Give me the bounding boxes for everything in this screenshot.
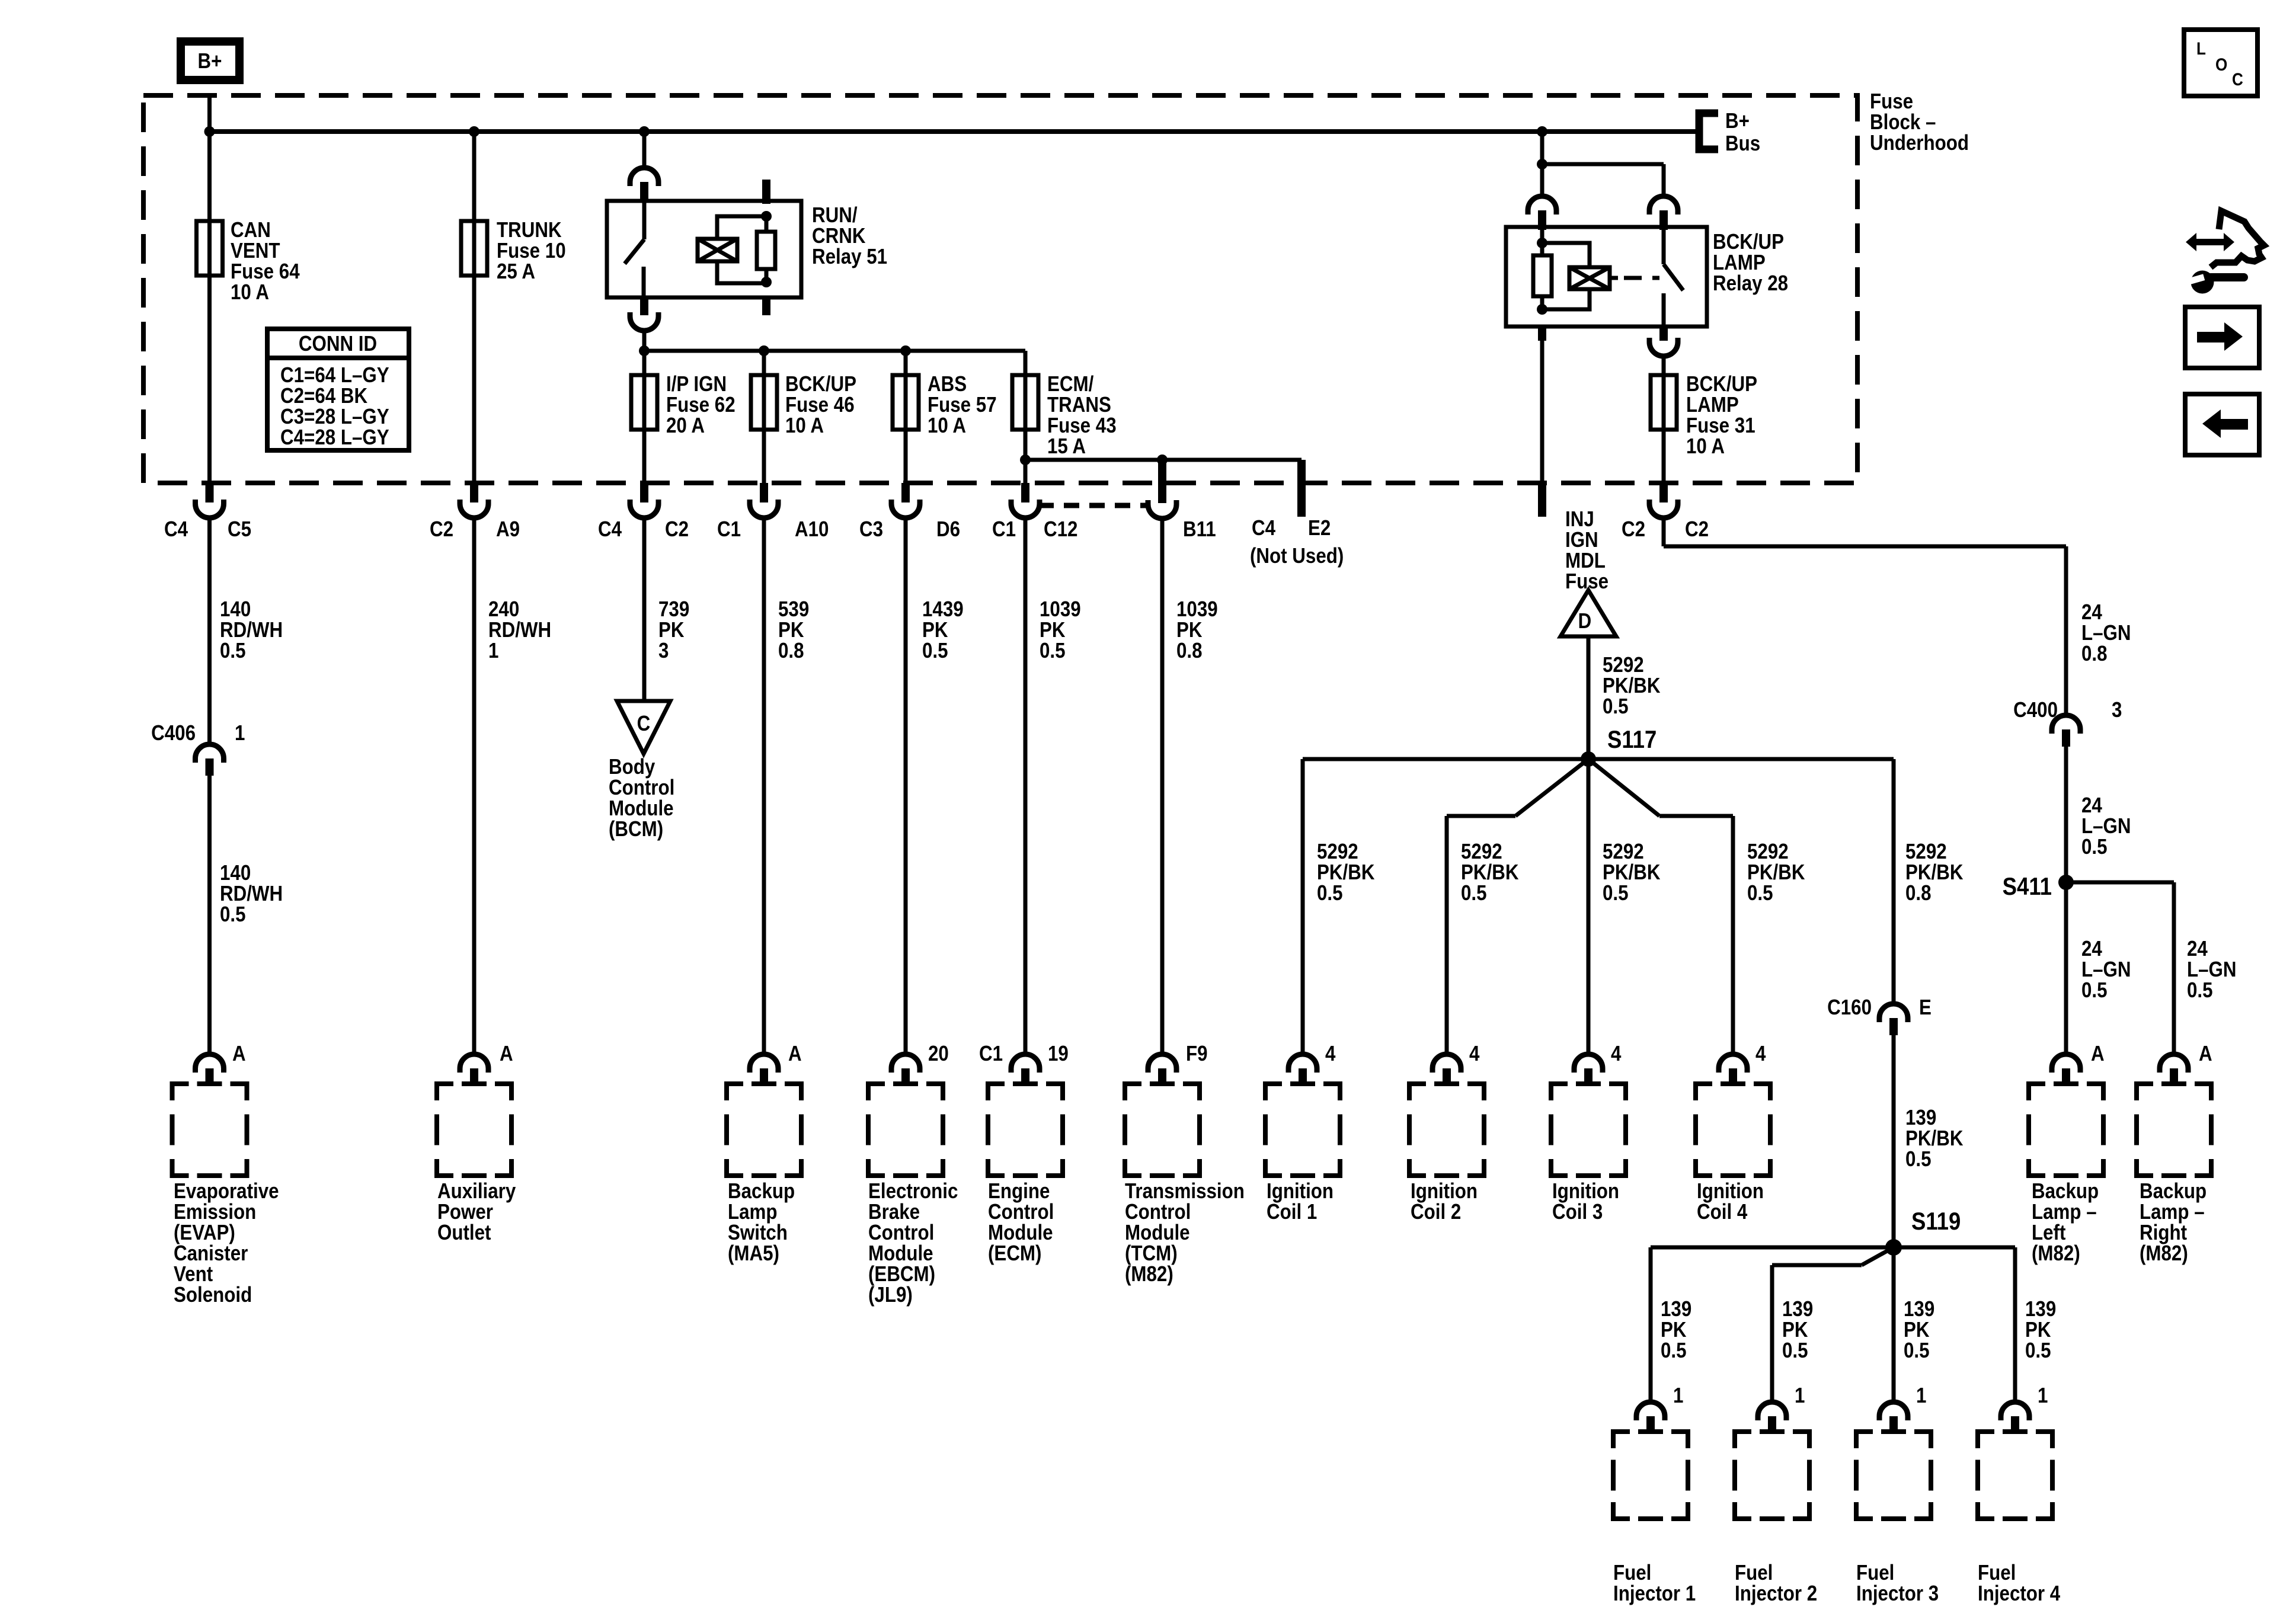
label fuse 46 (785, 372, 856, 438)
svg-text:O: O (2215, 55, 2227, 74)
wire label 139 PK injector 1 (1661, 1297, 1691, 1363)
triangle D from INJ IGN MDL fuse (1560, 590, 1616, 636)
svg-text:Outlet: Outlet (437, 1221, 491, 1245)
LOC reference box (2184, 30, 2257, 96)
connector relay28 coil pin (1528, 196, 1556, 230)
svg-text:0.5: 0.5 (1603, 694, 1629, 719)
wire fuse 10 to connector C2/A9 (472, 276, 477, 483)
wire 1439 PK (906, 518, 964, 1053)
wire to fuse 62 (642, 351, 647, 375)
svg-text:Coil 1: Coil 1 (1267, 1200, 1317, 1224)
svg-text:C5: C5 (228, 517, 251, 542)
label EBCM (868, 1179, 958, 1307)
label fuse 10 (497, 218, 566, 284)
relay 51 coil (698, 216, 766, 283)
connector 4 ignition coil 4 (1719, 1042, 1766, 1083)
svg-text:4: 4 (1469, 1042, 1480, 1066)
svg-text:3: 3 (2112, 698, 2122, 722)
label ignition coil 1 (1267, 1179, 1334, 1224)
label INJ IGN MDL fuse (1565, 507, 1609, 594)
svg-text:Underhood: Underhood (1870, 131, 1969, 155)
label fuel injector 2 (1735, 1561, 1817, 1606)
svg-text:C2: C2 (665, 517, 689, 542)
connector A AUX (460, 1042, 513, 1083)
svg-text:Bus: Bus (1725, 132, 1760, 156)
wire 5292 PK/BK 0.8 to C160 (1894, 759, 1964, 1004)
relay 51 coil resistor (757, 211, 775, 287)
svg-text:Coil 2: Coil 2 (1411, 1200, 1461, 1224)
label fuel injector 3 (1856, 1561, 1939, 1606)
terminal E2 not used (1250, 460, 1344, 568)
connector 1 fuel injector 3 (1879, 1384, 1926, 1430)
wire fuse 46 to connector C1/A10 (762, 430, 766, 483)
svg-text:(Not Used): (Not Used) (1250, 544, 1344, 568)
svg-text:4: 4 (1611, 1042, 1622, 1066)
go-to next arrow box (2185, 307, 2259, 368)
svg-text:0.5: 0.5 (1040, 639, 1066, 663)
label backup lamp switch (728, 1179, 795, 1266)
svg-text:CONN ID: CONN ID (299, 332, 377, 356)
svg-text:19: 19 (1048, 1042, 1069, 1066)
connector A backup lamp switch (750, 1042, 802, 1083)
power feed B+ symbol box (177, 37, 244, 84)
svg-text:C4: C4 (1252, 516, 1275, 540)
svg-text:C2: C2 (1622, 517, 1645, 542)
svg-text:Solenoid: Solenoid (174, 1283, 252, 1307)
wire S119 to injector 3 (1892, 1247, 1896, 1401)
svg-text:Injector 3: Injector 3 (1856, 1582, 1939, 1606)
wire label 139 PK injector 3 (1904, 1297, 1934, 1363)
ignition coil 2 box (1409, 1084, 1484, 1176)
svg-text:D: D (1578, 609, 1592, 633)
node bus-RELAY51 (639, 126, 650, 137)
node bus2-fuse46 (759, 345, 769, 356)
wire label 139 PK injector 2 (1782, 1297, 1813, 1363)
svg-text:C1: C1 (992, 517, 1016, 542)
fuse block dashed border (143, 95, 1857, 483)
svg-text:0.5: 0.5 (1904, 1339, 1930, 1363)
svg-text:10 A: 10 A (928, 414, 966, 438)
fuse block label Fuse Block - Underhood (1870, 89, 1969, 155)
connector C4/C2 (598, 483, 689, 542)
B+ Bus terminal bracket (1699, 109, 1760, 156)
svg-text:0.5: 0.5 (220, 902, 246, 927)
label fuel injector 4 (1978, 1561, 2060, 1606)
branch wire to relay28 switch (1542, 164, 1664, 196)
wire label 24 L-GN 0.8 (2081, 600, 2131, 666)
relay 28 switch output (1649, 327, 1678, 375)
connector relay51 switch pin (630, 168, 658, 202)
svg-text:1: 1 (1916, 1384, 1926, 1408)
fuse F10 TRUNK (461, 221, 487, 276)
svg-text:0.5: 0.5 (2025, 1339, 2051, 1363)
relay 28 coil resistor (1533, 227, 1552, 315)
svg-text:Injector 4: Injector 4 (1978, 1582, 2060, 1606)
wire 140 RD/WH upper (210, 518, 283, 744)
wire 1039 PK C12 (1025, 518, 1081, 1053)
node bus-TRUNK (469, 126, 479, 137)
svg-text:0.5: 0.5 (2081, 978, 2108, 1003)
relay 28 box (1506, 227, 1707, 327)
wire S117 to coil3 (1588, 759, 1661, 1053)
wire S119 to injector 2 (1772, 1247, 1894, 1401)
fuse F46 BCK/UP (751, 375, 777, 430)
label fuse 57 (928, 372, 997, 438)
relay 28 switch (1664, 227, 1683, 327)
svg-text:A: A (2199, 1042, 2212, 1066)
relay 28 coil output (1538, 327, 1546, 483)
svg-text:0.8: 0.8 (2081, 642, 2108, 666)
fuse F64 CAN VENT (197, 221, 223, 276)
fuel injector 2 box (1735, 1432, 1809, 1519)
label ignition coil 3 (1552, 1179, 1619, 1224)
svg-text:10 A: 10 A (785, 414, 824, 438)
svg-text:B11: B11 (1183, 517, 1216, 542)
node bus2-fuse62 (639, 345, 650, 356)
relay 28 actuator link (1624, 276, 1659, 280)
svg-text:Relay 28: Relay 28 (1713, 271, 1788, 296)
backup lamp left box (2029, 1084, 2103, 1176)
label fuse 64 (231, 218, 300, 305)
svg-text:0.8: 0.8 (1905, 881, 1932, 905)
connector C1/C12 (992, 483, 1077, 542)
svg-text:Coil 4: Coil 4 (1697, 1200, 1747, 1224)
svg-text:(JL9): (JL9) (868, 1283, 913, 1307)
node bus2-fuse57 (900, 345, 911, 356)
CONN ID table (267, 329, 409, 450)
svg-text:E: E (1919, 996, 1932, 1020)
svg-text:4: 4 (1325, 1042, 1336, 1066)
ignition coil 1 box (1265, 1084, 1340, 1176)
svg-text:(M82): (M82) (2032, 1241, 2080, 1266)
connector B11 (1148, 460, 1216, 542)
wire S411 to left backup lamp (2066, 882, 2131, 1053)
svg-text:C400: C400 (2013, 698, 2058, 722)
svg-text:20 A: 20 A (666, 414, 705, 438)
svg-text:0.5: 0.5 (1905, 1147, 1932, 1172)
relay 51 box (607, 201, 801, 297)
label BCM (609, 755, 674, 841)
svg-text:C160: C160 (1827, 996, 1872, 1020)
connector C406 pin 1 (151, 721, 245, 776)
svg-text:C4: C4 (164, 517, 188, 542)
svg-text:3: 3 (658, 639, 669, 663)
svg-text:0.8: 0.8 (778, 639, 804, 663)
wire fuse 31 to connector C2/C2 (1662, 430, 1666, 483)
S117 bus wire (1303, 757, 1894, 761)
fuse feed bus below relay 51 (644, 349, 1025, 353)
svg-text:(MA5): (MA5) (728, 1241, 779, 1266)
connector C400 pin 3 (2013, 698, 2122, 747)
label ECM (988, 1179, 1054, 1266)
fuse F31 BCK/UP LAMP (1651, 375, 1677, 430)
svg-text:C1: C1 (979, 1042, 1003, 1066)
svg-text:C4: C4 (598, 517, 622, 542)
wire bus to relay 28 (1540, 132, 1544, 196)
wire S119 to injector 4 (1894, 1247, 2015, 1401)
connector frame dashes C12-B11 (1038, 503, 1149, 508)
svg-text:Coil 3: Coil 3 (1552, 1200, 1603, 1224)
EVAP canister vent solenoid box (172, 1084, 247, 1176)
svg-text:C2: C2 (430, 517, 453, 542)
connector C4/C5 (164, 483, 251, 542)
splice S411 (2003, 873, 2074, 901)
svg-text:S117: S117 (1607, 726, 1657, 754)
svg-text:C1: C1 (717, 517, 741, 542)
relay 51 switch output (630, 297, 658, 351)
svg-text:0.5: 0.5 (922, 639, 948, 663)
wire fuse 64 to connector C4/C5 (207, 276, 212, 483)
EBCM box (868, 1084, 943, 1176)
svg-text:C4=28 L–GY: C4=28 L–GY (280, 425, 389, 450)
relay 28 coil (1542, 243, 1618, 309)
svg-text:1: 1 (488, 639, 498, 663)
wire to fuse 57 (904, 351, 908, 375)
svg-text:0.5: 0.5 (1603, 881, 1629, 905)
connector A backup lamp left (2052, 1042, 2105, 1083)
svg-text:20: 20 (928, 1042, 949, 1066)
node branch-B11 (1157, 454, 1168, 465)
fuse F57 ABS (893, 375, 919, 430)
label ignition coil 2 (1411, 1179, 1478, 1224)
svg-text:0.5: 0.5 (2081, 835, 2108, 859)
wire to fuse 46 (762, 351, 766, 375)
svg-text:A: A (500, 1042, 513, 1066)
label fuse 62 (666, 372, 736, 438)
svg-text:(M82): (M82) (2140, 1241, 2188, 1266)
fuel injector 4 box (1978, 1432, 2052, 1519)
svg-text:0.5: 0.5 (1461, 881, 1487, 905)
ECM box (988, 1084, 1063, 1176)
wire fuse 57 to connector C3/D6 (904, 430, 908, 483)
came-from arrow box (2185, 394, 2259, 455)
wire S117 to coil2 (1447, 759, 1588, 1053)
diagnostic icon vehicle with wrench (2186, 211, 2264, 294)
triangle C to BCM (617, 701, 670, 754)
connector C2/A9 (430, 483, 520, 542)
ignition coil 4 box (1696, 1084, 1770, 1176)
wire 739 PK (644, 518, 689, 701)
svg-text:0.5: 0.5 (2187, 978, 2213, 1003)
svg-text:1: 1 (235, 721, 245, 745)
connector C1/A10 (717, 483, 829, 542)
label backup lamp left (2032, 1179, 2099, 1266)
fuse F43 ECM/TRANS (1012, 375, 1038, 430)
connector C3/D6 (859, 483, 960, 542)
connector 1 fuel injector 4 (2001, 1384, 2048, 1430)
svg-text:A: A (232, 1042, 246, 1066)
node relay28 branch (1537, 159, 1547, 169)
wire 5292 PK/BK to S117 (1588, 636, 1661, 759)
connector relay28 switch pin (1649, 196, 1678, 230)
svg-text:A: A (788, 1042, 802, 1066)
svg-text:C2: C2 (1685, 517, 1709, 542)
wire 1039 PK B11 (1162, 518, 1218, 1053)
node fuse43-branch (1020, 454, 1031, 465)
connector 20 EBCM (891, 1042, 949, 1083)
svg-text:Injector 1: Injector 1 (1613, 1582, 1696, 1606)
fuel injector 3 box (1856, 1432, 1931, 1519)
svg-text:10 A: 10 A (231, 280, 269, 305)
connector 4 ignition coil 2 (1432, 1042, 1480, 1083)
svg-text:(BCM): (BCM) (609, 817, 663, 841)
label relay 51 (812, 203, 887, 269)
label backup lamp right (2140, 1179, 2207, 1266)
connector A EVAP (196, 1042, 246, 1083)
branch wire to B11 and E2 (1025, 458, 1302, 462)
svg-text:F9: F9 (1186, 1042, 1208, 1066)
wire 240 RD/WH (474, 518, 551, 1053)
wire label 139 PK injector 4 (2025, 1297, 2056, 1363)
svg-text:0.5: 0.5 (1317, 881, 1343, 905)
node bus-RELAY28 (1537, 126, 1547, 137)
wire bus to relay 51 switch (642, 132, 647, 168)
svg-text:0.5: 0.5 (1661, 1339, 1687, 1363)
svg-text:Injector 2: Injector 2 (1735, 1582, 1817, 1606)
svg-text:25 A: 25 A (497, 260, 535, 284)
label relay 28 (1713, 230, 1788, 296)
svg-text:S411: S411 (2003, 873, 2052, 901)
auxiliary power outlet box (437, 1084, 511, 1176)
svg-text:A10: A10 (795, 517, 829, 542)
svg-text:C3: C3 (859, 517, 883, 542)
wire S117 to coil4 (1588, 759, 1805, 1053)
svg-text:0.5: 0.5 (1782, 1339, 1808, 1363)
backup lamp switch box (727, 1084, 801, 1176)
svg-text:C: C (637, 712, 651, 736)
relay 51 coil output pin (762, 297, 770, 315)
TCM box (1125, 1084, 1200, 1176)
svg-text:C12: C12 (1044, 517, 1077, 542)
label fuel injector 1 (1613, 1561, 1696, 1606)
connector F9 TCM (1148, 1042, 1208, 1083)
fuel injector 1 box (1613, 1432, 1688, 1519)
svg-text:0.5: 0.5 (1747, 881, 1773, 905)
wire B+ to CAN VENT fuse (207, 95, 212, 221)
connector C1 19 ECM (979, 1042, 1069, 1083)
backup lamp right box (2137, 1084, 2211, 1176)
wire bus to TRUNK fuse (472, 132, 477, 221)
connector 4 ignition coil 1 (1288, 1042, 1336, 1083)
node bus-CANVENT (204, 126, 215, 137)
wire 139 PK/BK to S119 (1894, 1035, 1964, 1247)
svg-text:0.5: 0.5 (220, 639, 246, 663)
svg-text:15 A: 15 A (1047, 434, 1086, 459)
svg-text:B+: B+ (1725, 109, 1750, 133)
label ignition coil 4 (1697, 1179, 1764, 1224)
label EVAP (174, 1179, 279, 1307)
connector 1 fuel injector 2 (1758, 1384, 1805, 1430)
splice S117 (1581, 726, 1657, 767)
wire S411 to right backup lamp (2066, 882, 2237, 1053)
svg-text:(M82): (M82) (1125, 1262, 1173, 1286)
svg-text:1: 1 (2038, 1384, 2048, 1408)
label fuse 43 (1047, 372, 1117, 459)
B+ bus wire (210, 129, 1698, 134)
connector 1 fuel injector 1 (1636, 1384, 1683, 1430)
svg-text:S119: S119 (1911, 1208, 1961, 1235)
label AUX outlet (437, 1179, 516, 1245)
svg-text:A: A (2091, 1042, 2105, 1066)
svg-text:Relay 51: Relay 51 (812, 245, 887, 269)
ignition coil 3 box (1551, 1084, 1626, 1176)
wire fuse 62 to connector C4/C2 (642, 430, 647, 483)
svg-text:10 A: 10 A (1686, 434, 1725, 459)
svg-text:C: C (2232, 69, 2243, 89)
wire C400 to S411 (2066, 747, 2131, 882)
terminal INJ IGN MDL fuse (1538, 483, 1546, 517)
wire to fuse 43 (1024, 351, 1028, 375)
svg-text:C406: C406 (151, 721, 196, 745)
connector C160 pin E (1827, 996, 1932, 1035)
svg-text:A9: A9 (496, 517, 520, 542)
relay 51 coil input pin (762, 180, 770, 204)
fuse F62 I/P IGN (631, 375, 657, 430)
svg-text:E2: E2 (1308, 516, 1331, 540)
wire 539 PK (764, 518, 809, 1053)
svg-text:L: L (2196, 39, 2206, 58)
splice S119 (1885, 1208, 1961, 1256)
wire S119 to injector 1 (1651, 1247, 1894, 1401)
svg-text:(ECM): (ECM) (988, 1241, 1041, 1266)
svg-text:D6: D6 (936, 517, 960, 542)
svg-text:4: 4 (1755, 1042, 1766, 1066)
svg-text:1: 1 (1795, 1384, 1805, 1408)
svg-text:B+: B+ (198, 49, 222, 73)
connector A backup lamp right (2160, 1042, 2212, 1083)
label fuse 31 (1686, 372, 1757, 459)
label TCM (1125, 1179, 1245, 1286)
svg-text:1: 1 (1673, 1384, 1683, 1408)
wire C2 to C400 (1664, 518, 2066, 715)
connector C2/C2 (1622, 483, 1709, 542)
wire fuse 43 to connector C1/C12 (1024, 430, 1028, 483)
wire S117 to coil1 (1303, 759, 1375, 1053)
svg-text:0.8: 0.8 (1176, 639, 1203, 663)
connector 4 ignition coil 3 (1574, 1042, 1622, 1083)
wire 140 RD/WH lower (210, 776, 283, 1053)
relay 51 switch (625, 201, 644, 297)
